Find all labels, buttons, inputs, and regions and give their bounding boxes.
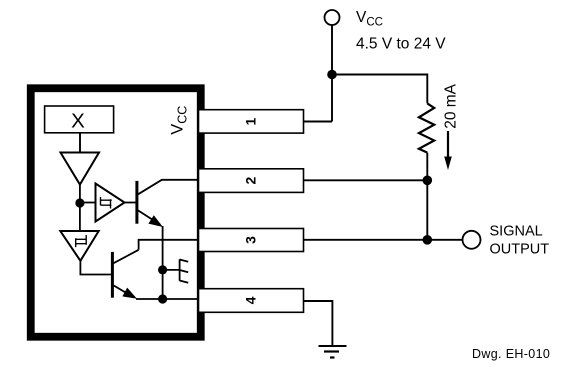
pin 2 — [199, 169, 304, 193]
svg-text:OUTPUT: OUTPUT — [490, 241, 550, 257]
transistor Q1 emitter arrow — [148, 215, 163, 227]
svg-text:X: X — [71, 110, 85, 133]
ground symbol — [319, 345, 347, 347]
hysteresis symbol U3 — [76, 235, 87, 247]
transistor Q1 emitter — [138, 210, 160, 224]
transistor Q2 collector — [114, 250, 139, 263]
transistor Q2 base bar — [111, 252, 114, 298]
wire Q1 emitter down — [162, 226, 164, 299]
wire resistor to pin2 node — [426, 153, 428, 181]
output terminal circle — [463, 231, 481, 249]
schmitt trigger U3 — [60, 231, 98, 261]
wire VCC node to resistor — [332, 75, 427, 104]
wire to chassis symbol — [163, 269, 180, 271]
chassis ground symbol — [180, 259, 189, 283]
svg-text:20 mA: 20 mA — [443, 83, 460, 128]
pin 3 — [199, 229, 304, 252]
IC package outline U1 — [31, 88, 201, 337]
svg-text:SIGNAL: SIGNAL — [490, 224, 543, 240]
transistor Q2 emitter — [114, 285, 135, 297]
wire node pin2 to node pin3 — [426, 180, 428, 240]
transistor Q1 collector — [138, 180, 200, 195]
pin 1 — [199, 110, 304, 133]
svg-text:Dwg. EH-010: Dwg. EH-010 — [472, 347, 550, 361]
wire Q2 emitter to pin 4 — [136, 298, 200, 300]
wire node to schmitt trigger 1 — [80, 202, 96, 204]
svg-text:1: 1 — [243, 117, 259, 125]
svg-text:4: 4 — [243, 296, 259, 304]
wire schmitt2 output to Q2 base — [80, 260, 111, 275]
node C junction dot pin4 — [158, 294, 167, 303]
wire pin3 net — [139, 240, 200, 250]
node B junction dot chassis — [158, 265, 167, 274]
node VCC junction dot — [327, 70, 337, 80]
transistor Q2 emitter arrow — [122, 288, 137, 299]
wire X to amplifier — [79, 133, 81, 154]
wire pin3 to node — [304, 239, 428, 241]
wire pin4 to ground — [304, 301, 333, 346]
transistor Q1 base bar — [135, 181, 138, 224]
wire node to output terminal — [427, 239, 462, 241]
svg-text:3: 3 — [243, 236, 259, 244]
node A junction dot — [75, 198, 84, 207]
resistor R1 — [419, 103, 434, 152]
VCC terminal circle — [325, 10, 340, 25]
wire amplifier output to node — [79, 184, 81, 233]
node pin3 junction dot — [423, 235, 433, 245]
schmitt trigger U2 — [96, 184, 125, 222]
op-amp A1 amplifier triangle — [61, 153, 100, 185]
wire VCC terminal down to pin1 — [304, 25, 333, 122]
node pin2 junction dot — [423, 176, 433, 186]
current arrow — [447, 131, 449, 158]
wire schmitt1 to Q1 base — [125, 202, 136, 204]
hysteresis symbol U2 — [101, 197, 112, 209]
svg-text:2: 2 — [243, 176, 259, 184]
hall element X — [45, 106, 114, 133]
svg-text:4.5 V to 24 V: 4.5 V to 24 V — [356, 36, 446, 53]
pin 4 — [199, 289, 304, 313]
wire pin2 to node — [304, 179, 428, 181]
